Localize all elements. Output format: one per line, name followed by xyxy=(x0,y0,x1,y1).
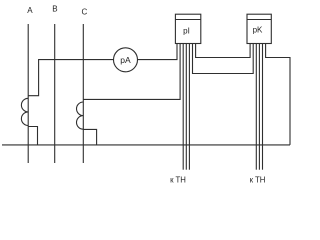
svg-text:к ТН: к ТН xyxy=(170,176,186,185)
wire pK pin 4 to VT xyxy=(258,44,260,170)
wire pI pin 3 to VT xyxy=(182,44,184,170)
svg-text:B: B xyxy=(52,5,57,14)
transformer TA1 winding (phase A) xyxy=(21,98,28,125)
svg-text:к ТН: к ТН xyxy=(250,176,266,185)
wire phase C line xyxy=(82,24,84,163)
wire pK pin 6 to bus right riser xyxy=(266,44,290,145)
wire pI pin 7 to pK pin 1 xyxy=(196,44,251,58)
wire pK pin 5 to VT xyxy=(262,44,264,170)
svg-text:pK: pK xyxy=(253,26,263,35)
svg-text:C: C xyxy=(82,8,88,17)
wire TA1 top tap to ammeter xyxy=(28,60,113,96)
ammeter pA xyxy=(114,48,138,72)
wire TA1 bottom tap to bus xyxy=(28,127,37,145)
svg-text:pI: pI xyxy=(183,27,190,36)
wire pI pin 5 to VT xyxy=(188,44,190,170)
wire bottom bus xyxy=(2,144,290,146)
svg-text:pA: pA xyxy=(120,55,131,65)
wire ammeter to meter pI pin 1 xyxy=(138,44,177,60)
wire pK pin 3 to VT xyxy=(255,44,257,170)
wire pI pin 6 to pK pin 2 xyxy=(193,44,254,74)
wire TA2 top tap to meter pI pin 2 xyxy=(83,44,180,100)
transformer TA2 winding (phase C) xyxy=(77,102,84,129)
meter pK box xyxy=(247,14,271,43)
wire phase B line xyxy=(54,24,56,163)
wire TA2 bottom tap to bus xyxy=(83,129,96,145)
wire pI pin 4 to VT xyxy=(185,44,187,170)
wire phase A line xyxy=(27,24,29,163)
svg-text:A: A xyxy=(27,6,33,15)
meter pI box xyxy=(175,14,200,43)
